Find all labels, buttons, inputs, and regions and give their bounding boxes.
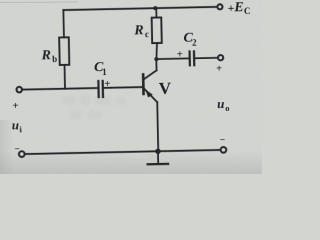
svg-text:+: + bbox=[177, 49, 183, 60]
svg-text:+: + bbox=[12, 100, 19, 112]
svg-text:V: V bbox=[159, 79, 172, 98]
svg-text:1: 1 bbox=[102, 67, 107, 77]
svg-text:o: o bbox=[225, 103, 229, 113]
svg-text:u: u bbox=[217, 96, 225, 111]
svg-text:E: E bbox=[233, 0, 244, 15]
svg-text:+: + bbox=[104, 78, 111, 90]
svg-text:C: C bbox=[244, 6, 251, 16]
svg-text:R: R bbox=[40, 48, 51, 63]
svg-text:R: R bbox=[133, 23, 144, 38]
svg-text:−: − bbox=[14, 145, 20, 155]
svg-text:u: u bbox=[12, 117, 20, 132]
svg-text:b: b bbox=[52, 54, 57, 64]
svg-text:2: 2 bbox=[192, 38, 197, 48]
svg-text:−: − bbox=[220, 135, 226, 145]
svg-text:c: c bbox=[145, 29, 149, 39]
svg-text:+: + bbox=[216, 64, 222, 75]
